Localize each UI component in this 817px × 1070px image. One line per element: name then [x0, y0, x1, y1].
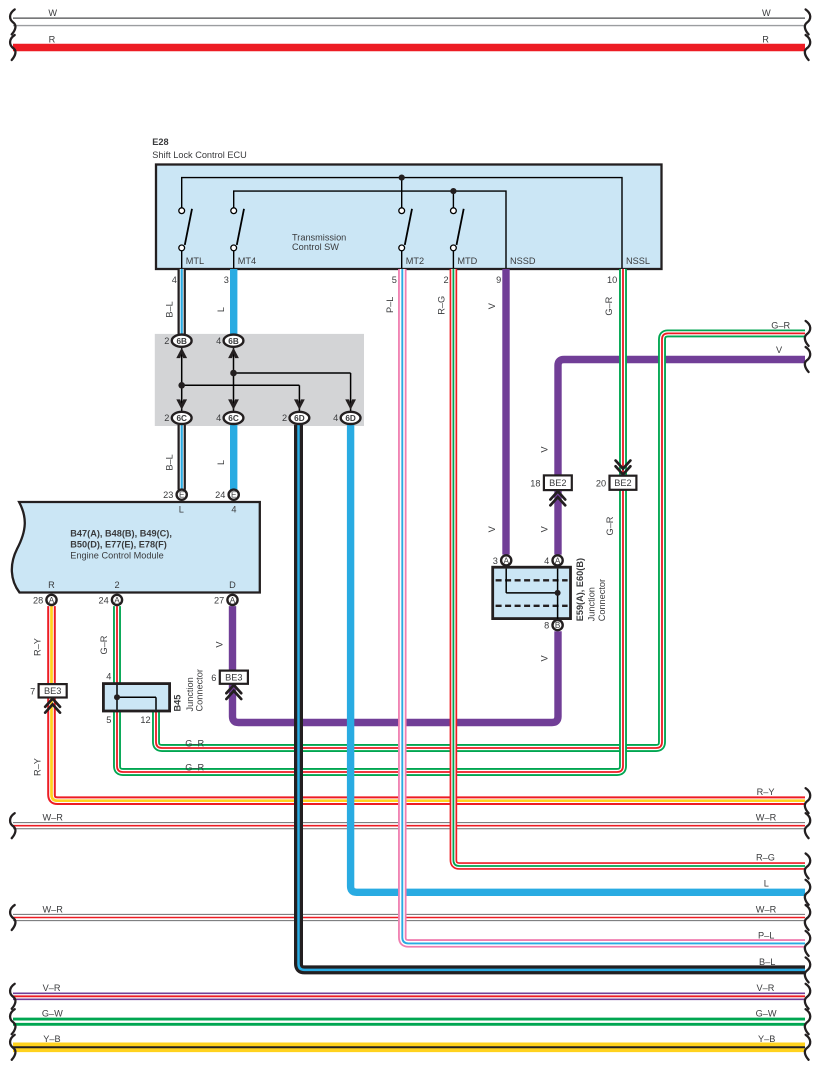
svg-text:2: 2 — [164, 413, 169, 423]
svg-text:18: 18 — [530, 479, 540, 489]
svg-text:9: 9 — [496, 275, 501, 285]
svg-text:6C: 6C — [228, 414, 239, 423]
connector 28 A — [46, 595, 56, 605]
svg-text:V–R: V–R — [757, 983, 775, 993]
svg-text:Engine Control Module: Engine Control Module — [70, 551, 163, 561]
svg-text:MTD: MTD — [457, 256, 477, 266]
arrows into 6B — [176, 348, 187, 358]
svg-text:B: B — [555, 621, 561, 630]
svg-text:V: V — [540, 654, 550, 661]
svg-text:4: 4 — [216, 336, 221, 346]
svg-text:R–G: R–G — [436, 296, 446, 315]
svg-text:L: L — [179, 505, 184, 515]
svg-text:Transmission: Transmission — [292, 232, 346, 242]
gray harness box — [155, 334, 364, 426]
wire bus1 MTL-MT2-NSSL — [182, 178, 622, 268]
connector 4 A — [553, 555, 563, 565]
svg-text:Junction: Junction — [586, 587, 596, 621]
svg-text:G–R: G–R — [604, 296, 614, 315]
svg-text:L: L — [216, 460, 226, 465]
wire V-R horizontal — [13, 992, 805, 1000]
svg-text:W–R: W–R — [43, 812, 64, 822]
svg-text:E: E — [231, 491, 237, 500]
svg-text:B45: B45 — [173, 695, 183, 712]
svg-text:V: V — [540, 525, 550, 532]
svg-text:P–L: P–L — [758, 930, 774, 940]
svg-text:4: 4 — [231, 505, 236, 515]
wire V NSSD pin9 to 3A — [502, 269, 509, 555]
svg-text:E59(A), E60(B): E59(A), E60(B) — [575, 558, 585, 621]
wire L from 4-6D to right edge — [351, 425, 805, 893]
svg-text:W–R: W–R — [43, 904, 64, 914]
svg-text:2: 2 — [164, 336, 169, 346]
connector 4-6C — [224, 412, 244, 424]
svg-text:B50(D), E77(E), E78(F): B50(D), E77(E), E78(F) — [70, 539, 167, 549]
svg-text:MT4: MT4 — [238, 256, 256, 266]
svg-text:A: A — [230, 596, 236, 605]
svg-text:2: 2 — [114, 580, 119, 590]
svg-text:3: 3 — [224, 275, 229, 285]
svg-text:B–L: B–L — [759, 957, 775, 967]
svg-text:7: 7 — [30, 687, 35, 697]
wire R-Y from ECM pin R to right edge — [52, 606, 806, 801]
connector 24 E — [229, 490, 239, 500]
svg-text:B–L: B–L — [164, 301, 174, 317]
svg-text:G–R: G–R — [99, 635, 109, 654]
svg-text:6C: 6C — [176, 414, 187, 423]
svg-text:MT2: MT2 — [406, 256, 424, 266]
svg-text:A: A — [503, 556, 509, 565]
svg-text:Shift Lock Control ECU: Shift Lock Control ECU — [152, 150, 246, 160]
svg-text:BE3: BE3 — [44, 686, 61, 696]
svg-text:2: 2 — [282, 413, 287, 423]
svg-text:6D: 6D — [345, 414, 356, 423]
wire L MT4 pin3 to 4-6B — [230, 269, 237, 335]
svg-text:P–L: P–L — [385, 297, 395, 313]
svg-text:W: W — [48, 8, 57, 18]
svg-text:L: L — [764, 879, 769, 889]
wire R top — [13, 44, 805, 51]
svg-text:V: V — [540, 446, 550, 453]
svg-text:23: 23 — [163, 490, 173, 500]
svg-text:V: V — [776, 345, 783, 355]
wire link 2-6B to 2-6C and 2-6D — [181, 347, 183, 412]
node junction dot B45 — [114, 694, 120, 700]
svg-text:4: 4 — [544, 556, 549, 566]
node junction on bus2 at MTD — [452, 191, 454, 208]
svg-text:27: 27 — [214, 596, 224, 606]
svg-text:10: 10 — [607, 275, 617, 285]
svg-text:4: 4 — [106, 672, 111, 682]
svg-text:6B: 6B — [228, 337, 239, 346]
switch MT2 — [399, 208, 412, 268]
wire P-L from MT2 pin5 to right edge — [402, 269, 805, 943]
svg-text:NSSL: NSSL — [626, 256, 650, 266]
wire G-R from ECM pin 2 to B45 pin 4 — [113, 606, 121, 684]
connector 2-6D — [290, 412, 310, 424]
svg-text:G–W: G–W — [42, 1009, 63, 1019]
svg-text:R: R — [49, 35, 56, 45]
svg-text:R: R — [48, 580, 55, 590]
svg-text:E28: E28 — [152, 137, 168, 147]
svg-text:BE3: BE3 — [225, 673, 242, 683]
wire W-R horizontal 2 — [13, 914, 805, 921]
svg-text:Y–B: Y–B — [758, 1034, 775, 1044]
svg-text:G–R: G–R — [185, 762, 204, 772]
connector 8 B — [553, 620, 563, 630]
connector 2-6B — [172, 335, 192, 347]
node junction dot 6B-2 — [230, 370, 237, 377]
shield 18 BE2 — [544, 475, 572, 490]
wire W top — [13, 18, 805, 26]
svg-text:Y–B: Y–B — [43, 1034, 60, 1044]
svg-text:A: A — [555, 556, 561, 565]
ECM box B47/B48/B49/B50/E77/E78 — [12, 502, 260, 593]
svg-text:6B: 6B — [176, 337, 187, 346]
wire V from right edge to junction 4A — [558, 360, 805, 555]
wire Y-B horizontal — [13, 1043, 805, 1053]
svg-text:20: 20 — [596, 479, 606, 489]
svg-text:6: 6 — [211, 673, 216, 683]
svg-text:Control SW: Control SW — [292, 242, 339, 252]
svg-text:E: E — [179, 491, 185, 500]
junction connector E59/E60 box — [493, 567, 571, 618]
wire break squiggles right — [805, 9, 810, 34]
svg-text:BE2: BE2 — [549, 478, 566, 488]
wire link 4-6B to 4-6C and 4-6D — [233, 347, 235, 412]
arrows into 6C and 6D — [176, 399, 187, 409]
svg-text:V: V — [215, 641, 225, 648]
node junction dot 6B-1 — [178, 382, 185, 389]
wire G-R junction B45 pin12 to right edge — [156, 333, 805, 748]
svg-text:R–Y: R–Y — [33, 758, 43, 776]
svg-text:28: 28 — [33, 596, 43, 606]
switch MT4 — [231, 208, 244, 268]
wire W-R horizontal 1 — [13, 822, 805, 829]
svg-text:A: A — [114, 596, 120, 605]
connector 2-6C — [172, 412, 192, 424]
svg-text:3: 3 — [493, 556, 498, 566]
svg-text:V: V — [487, 302, 497, 309]
svg-text:R–G: R–G — [756, 852, 775, 862]
svg-text:5: 5 — [106, 715, 111, 725]
shield 7 BE3 — [39, 684, 67, 697]
svg-text:W: W — [762, 8, 771, 18]
svg-text:4: 4 — [333, 413, 338, 423]
svg-text:NSSD: NSSD — [510, 256, 536, 266]
svg-text:D: D — [229, 580, 236, 590]
svg-text:Junction: Junction — [185, 677, 195, 711]
wire break squiggles left — [10, 9, 15, 34]
svg-text:4: 4 — [172, 275, 177, 285]
wire G-R junction B45 pin5 to NSSL pin10 — [117, 269, 623, 772]
svg-text:Connector: Connector — [194, 669, 204, 711]
wire B-L 2-6C to ECM 23E — [177, 425, 185, 490]
connector 27 A — [227, 595, 237, 605]
wire B-L MTL pin4 to 2-6B — [177, 269, 185, 335]
svg-text:R: R — [762, 35, 769, 45]
node junction dot E59 — [555, 590, 561, 596]
svg-text:24: 24 — [215, 490, 225, 500]
shield 20 BE2 — [610, 476, 637, 490]
svg-text:12: 12 — [140, 715, 150, 725]
svg-text:24: 24 — [98, 596, 108, 606]
svg-text:5: 5 — [392, 275, 397, 285]
switch MTL — [179, 208, 192, 268]
svg-text:V: V — [487, 525, 497, 532]
svg-text:BE2: BE2 — [614, 478, 631, 488]
ECU E28 box — [156, 165, 662, 270]
svg-text:MTL: MTL — [186, 256, 204, 266]
wire L 4-6C to ECM 24E — [230, 425, 237, 490]
svg-text:B47(A), B48(B), B49(C),: B47(A), B48(B), B49(C), — [70, 528, 172, 538]
svg-text:6D: 6D — [294, 414, 305, 423]
svg-text:4: 4 — [216, 413, 221, 423]
connector 23 E — [177, 490, 187, 500]
connector 24 A — [112, 595, 122, 605]
svg-text:A: A — [49, 596, 55, 605]
svg-text:G–R: G–R — [185, 738, 204, 748]
junction connector B45 box — [103, 684, 169, 711]
wire bus2 MT4-MTD-NSSD — [234, 191, 506, 268]
wire V from ECM pin D to junction 8B — [233, 606, 559, 722]
wire B-L from 2-6D to right edge — [299, 425, 806, 970]
switch MTD — [451, 208, 464, 268]
svg-text:G–W: G–W — [756, 1009, 777, 1019]
node junction on bus1 at MT2 — [401, 178, 403, 208]
svg-text:R–Y: R–Y — [33, 638, 43, 656]
svg-text:V–R: V–R — [43, 983, 61, 993]
svg-text:2: 2 — [443, 275, 448, 285]
svg-text:Connector: Connector — [597, 579, 607, 621]
wire G-W horizontal — [13, 1018, 805, 1026]
svg-text:G–R: G–R — [605, 516, 615, 535]
connector 4-6D — [341, 412, 361, 424]
connector 4-6B — [224, 335, 244, 347]
svg-text:8: 8 — [544, 621, 549, 631]
shield 6 BE3 — [220, 671, 248, 684]
svg-text:W–R: W–R — [756, 812, 777, 822]
svg-text:B–L: B–L — [164, 454, 174, 470]
svg-text:G–R: G–R — [771, 321, 790, 331]
wire R-G from MTD pin2 to right edge — [453, 269, 805, 866]
svg-text:W–R: W–R — [756, 904, 777, 914]
svg-text:R–Y: R–Y — [757, 787, 775, 797]
connector 3 A — [501, 555, 511, 565]
svg-text:L: L — [216, 307, 226, 312]
